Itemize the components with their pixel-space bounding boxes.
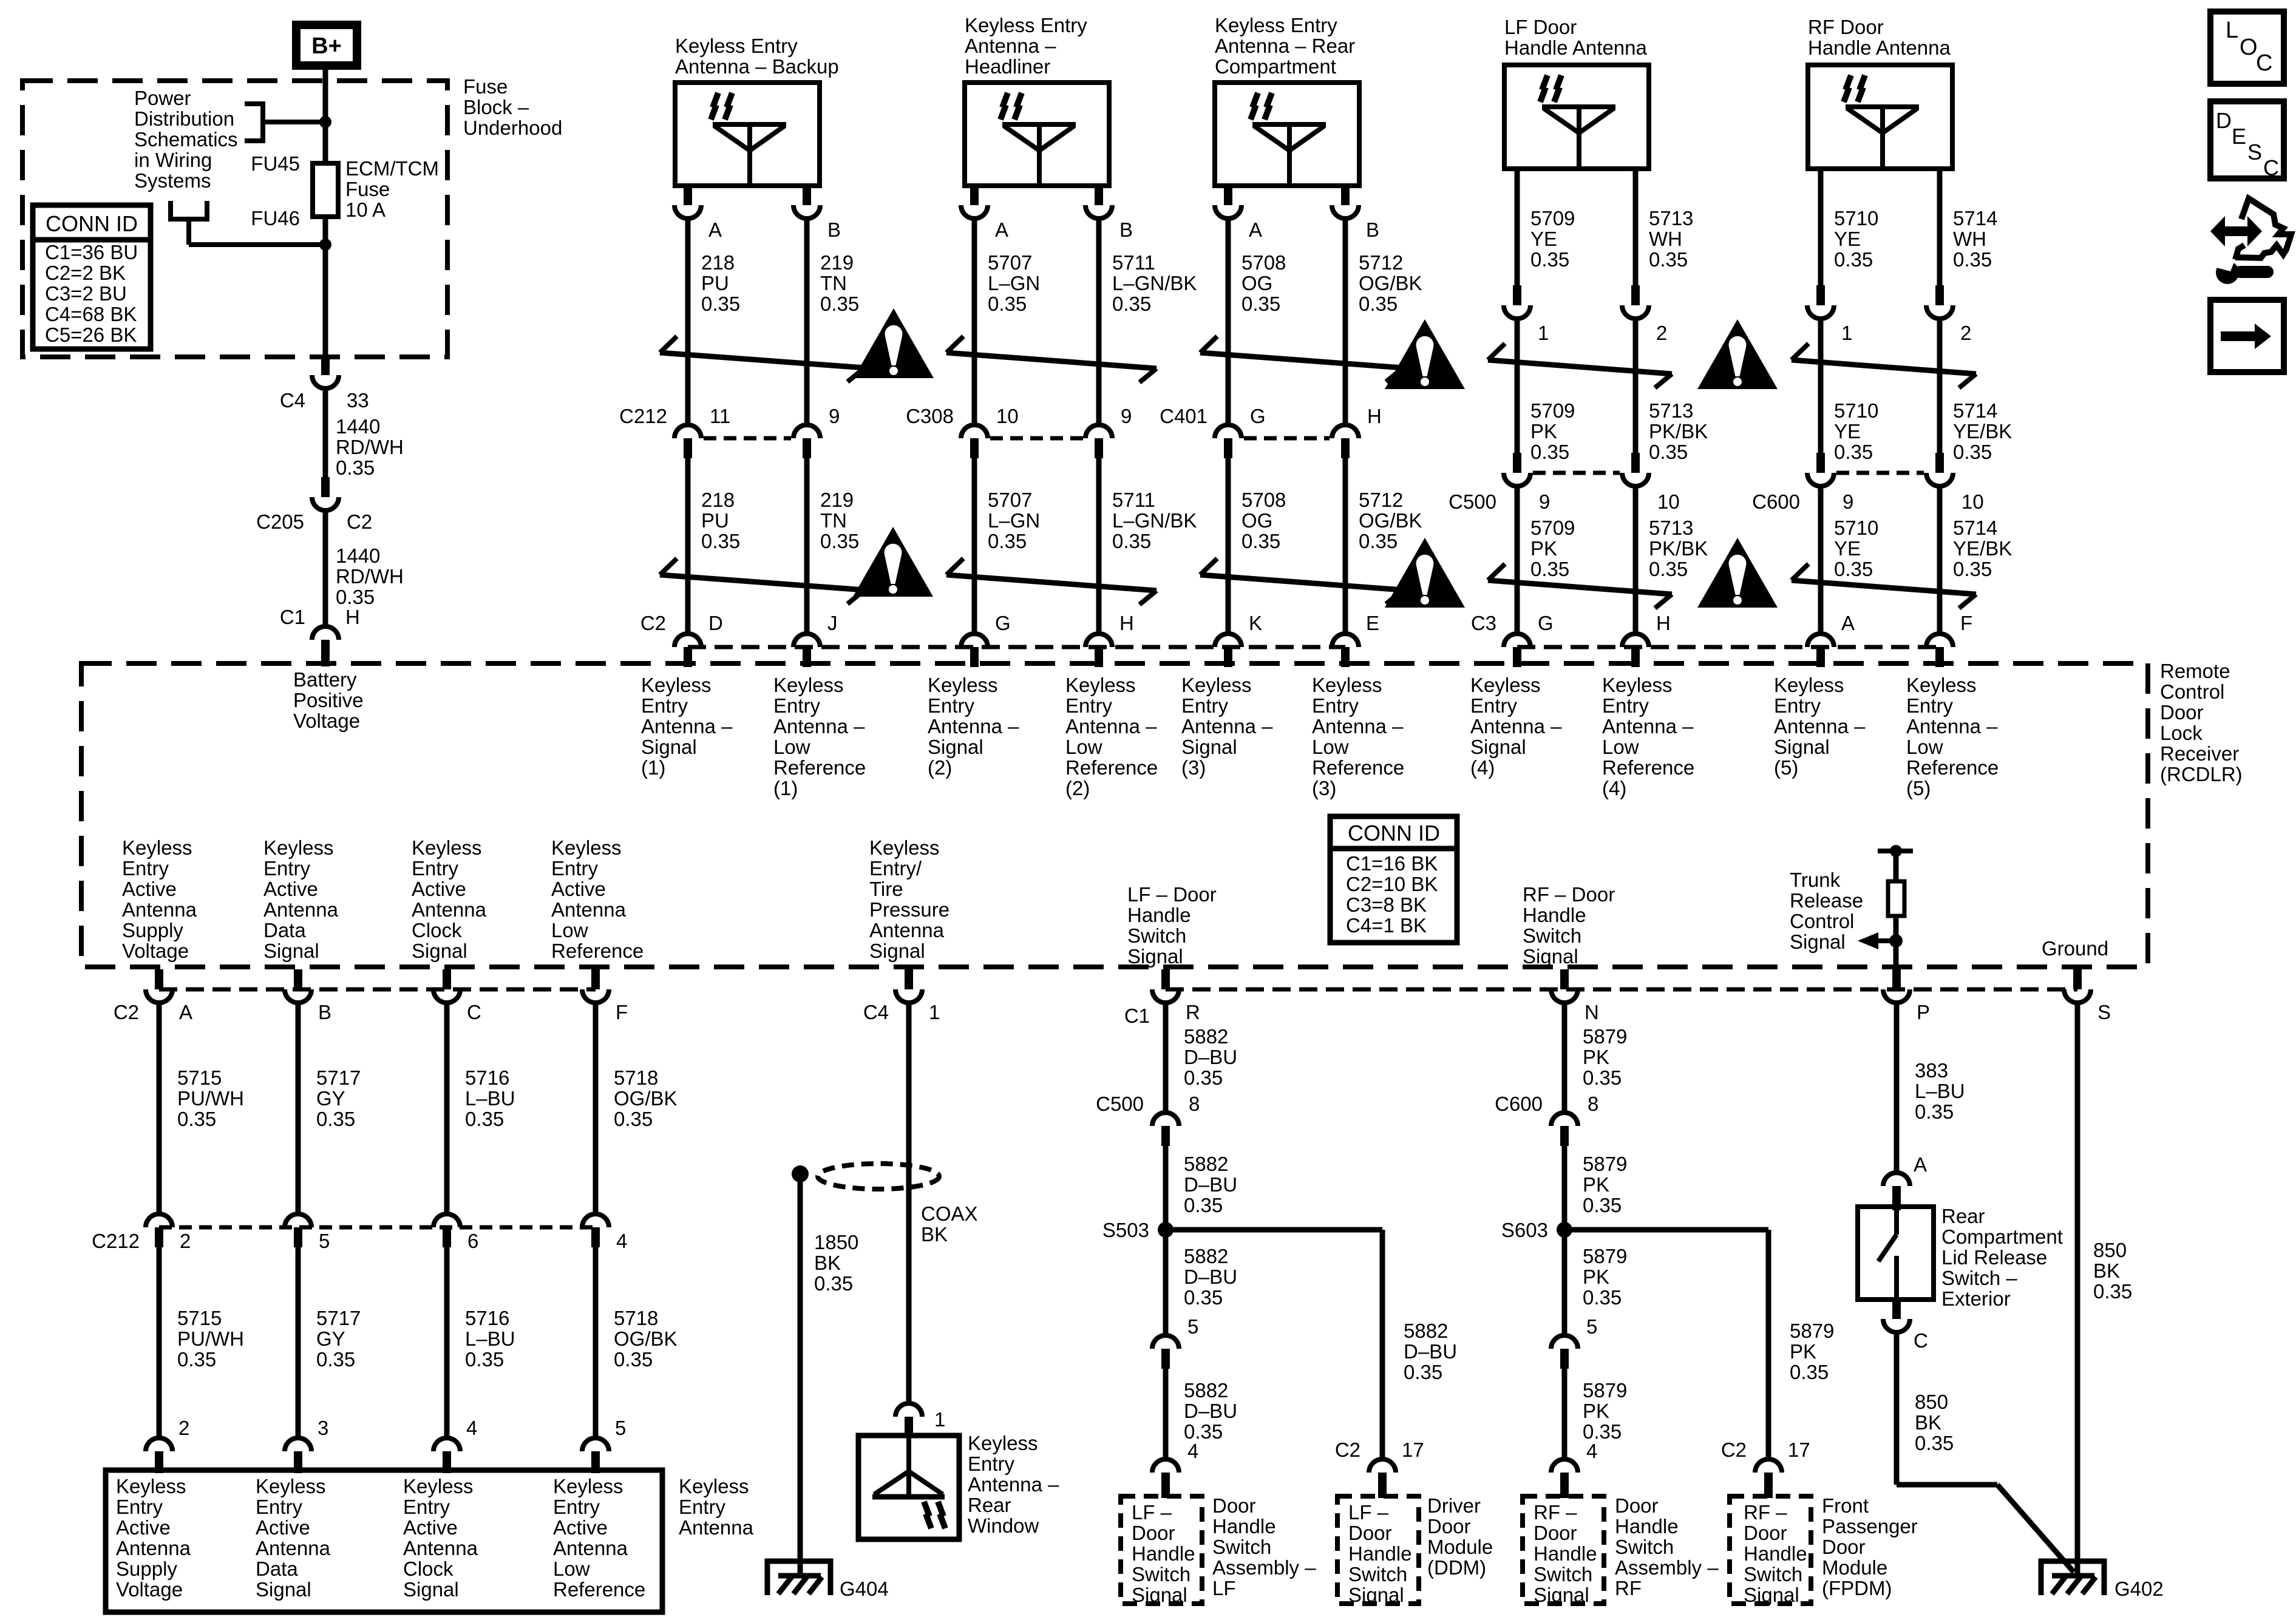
svg-text:Antenna: Antenna: [412, 898, 487, 921]
antenna box keyless entry antenna - rear compartment: [1215, 14, 1359, 186]
svg-text:Signal: Signal: [928, 736, 983, 758]
svg-text:G402: G402: [2114, 1578, 2164, 1600]
svg-text:Active: Active: [256, 1516, 310, 1539]
svg-text:5707: 5707: [988, 489, 1032, 511]
svg-text:Keyless Entry: Keyless Entry: [965, 14, 1087, 36]
svg-text:C2: C2: [1721, 1439, 1747, 1461]
svg-text:Entry: Entry: [928, 694, 975, 717]
svg-text:850: 850: [1915, 1391, 1948, 1413]
svg-text:H: H: [345, 606, 360, 628]
svg-text:Antenna: Antenna: [679, 1516, 754, 1539]
svg-text:11: 11: [710, 405, 730, 427]
label keyless entry antenna signal (2): [928, 674, 1019, 779]
svg-text:Receiver: Receiver: [2160, 742, 2239, 765]
svg-text:Handle Antenna: Handle Antenna: [1808, 36, 1951, 59]
svg-text:5713: 5713: [1649, 517, 1693, 539]
svg-text:0.35: 0.35: [1834, 248, 1873, 271]
svg-text:Signal: Signal: [1470, 736, 1526, 758]
svg-text:Keyless: Keyless: [116, 1475, 186, 1497]
svg-text:5879: 5879: [1583, 1245, 1627, 1267]
label inside module col 4: [553, 1475, 645, 1601]
svg-text:5: 5: [615, 1417, 626, 1439]
svg-text:Keyless: Keyless: [1470, 674, 1541, 696]
svg-text:ECM/TCM: ECM/TCM: [345, 157, 439, 180]
svg-text:0.35: 0.35: [336, 586, 375, 608]
svg-text:Signal: Signal: [1533, 1584, 1589, 1606]
svg-text:L–GN: L–GN: [988, 509, 1040, 532]
svg-text:J: J: [827, 612, 838, 634]
connector C2 pin 17 DDM: [1335, 1439, 1424, 1498]
svg-text:OG/BK: OG/BK: [1359, 509, 1422, 532]
crossing arrows lower: [1200, 558, 1403, 604]
svg-text:2: 2: [1656, 322, 1667, 344]
svg-text:Door: Door: [1615, 1494, 1659, 1517]
svg-text:(3): (3): [1181, 756, 1206, 779]
svg-text:Switch –: Switch –: [1941, 1267, 2017, 1289]
svg-text:(FPDM): (FPDM): [1822, 1577, 1892, 1599]
svg-text:Control: Control: [1790, 910, 1854, 932]
svg-text:Active: Active: [403, 1516, 458, 1539]
label keyless entry antenna low reference (4): [1602, 674, 1694, 799]
svg-text:Assembly –: Assembly –: [1615, 1556, 1719, 1579]
connector C2 dashed pin row at RCDLR bottom: [159, 988, 596, 992]
svg-text:0.35: 0.35: [1953, 441, 1992, 463]
label keyless entry antenna low reference (1): [773, 674, 866, 799]
svg-text:0.35: 0.35: [1790, 1361, 1829, 1383]
wire 5716 L–BU lower bottom-section: [447, 1247, 515, 1436]
svg-text:OG/BK: OG/BK: [1359, 272, 1422, 294]
svg-text:RF – Door: RF – Door: [1523, 883, 1615, 906]
label keyless entry antenna low reference (3): [1312, 674, 1404, 799]
svg-text:LF – Door: LF – Door: [1127, 883, 1217, 906]
svg-text:218: 218: [701, 251, 735, 274]
svg-text:Systems: Systems: [134, 169, 211, 192]
svg-text:Door: Door: [1744, 1522, 1787, 1544]
svg-text:Signal: Signal: [1348, 1584, 1404, 1606]
svg-text:0.35: 0.35: [316, 1348, 355, 1371]
svg-text:Entry: Entry: [551, 857, 599, 880]
svg-text:(1): (1): [773, 777, 798, 799]
label keyless entry antenna signal (5): [1774, 674, 1866, 779]
svg-text:0.35: 0.35: [2093, 1280, 2132, 1303]
svg-text:1: 1: [929, 1001, 940, 1023]
svg-text:CONN ID: CONN ID: [1348, 821, 1440, 846]
svg-text:Handle: Handle: [1744, 1542, 1807, 1565]
connector C600 pin 8: [1495, 1093, 1598, 1146]
svg-text:GY: GY: [316, 1327, 345, 1350]
connector pin E into RCDLR: [1332, 612, 1379, 667]
label keyless entry active antenna clock signal: [412, 836, 487, 962]
svg-text:S: S: [2247, 140, 2262, 164]
wire 5716 L–BU upper bottom-section: [447, 1002, 515, 1214]
svg-text:Keyless: Keyless: [551, 836, 622, 859]
svg-text:C: C: [1914, 1329, 1928, 1352]
svg-text:Antenna –: Antenna –: [928, 715, 1019, 737]
wire 850 BK from lid release switch: [1897, 1331, 2074, 1572]
wire 5709 YE from LF door antenna: [1517, 169, 1575, 285]
svg-text:Antenna –: Antenna –: [1181, 715, 1273, 737]
svg-text:OG: OG: [1241, 509, 1272, 532]
svg-text:0.35: 0.35: [1241, 530, 1280, 552]
svg-text:D–BU: D–BU: [1184, 1046, 1237, 1068]
svg-text:9: 9: [1539, 490, 1550, 513]
svg-text:Keyless: Keyless: [403, 1475, 474, 1497]
svg-text:Antenna –: Antenna –: [641, 715, 733, 737]
label inside module col 1: [116, 1475, 191, 1601]
svg-text:Signal: Signal: [412, 940, 467, 962]
battery feed B+ terminal: [296, 25, 357, 66]
svg-text:PK: PK: [1790, 1340, 1816, 1363]
svg-text:0.35: 0.35: [1915, 1432, 1954, 1454]
wire 5710 YE lower: [1821, 485, 1878, 634]
svg-text:YE: YE: [1834, 420, 1861, 442]
crossing arrows upper door: [1488, 344, 1672, 388]
svg-text:(4): (4): [1602, 777, 1626, 799]
svg-text:Compartment: Compartment: [1941, 1225, 2063, 1248]
svg-text:0.35: 0.35: [1953, 558, 1992, 580]
svg-text:Handle: Handle: [1615, 1515, 1679, 1537]
svg-text:4: 4: [1586, 1440, 1597, 1462]
svg-text:RF –: RF –: [1533, 1501, 1577, 1524]
svg-text:(4): (4): [1470, 756, 1495, 779]
bracket from schematics down: [168, 201, 209, 245]
svg-text:5712: 5712: [1359, 251, 1403, 274]
svg-text:PK: PK: [1530, 420, 1557, 442]
svg-text:Entry: Entry: [773, 694, 821, 717]
svg-text:5718: 5718: [614, 1066, 658, 1089]
svg-text:D–BU: D–BU: [1404, 1340, 1457, 1363]
label keyless entry antenna right of module: [679, 1475, 754, 1539]
svg-text:Signal: Signal: [1744, 1584, 1799, 1606]
svg-text:Keyless: Keyless: [122, 836, 192, 859]
svg-text:9: 9: [829, 405, 840, 427]
wire branch S603 to FPDM: [1564, 1230, 1834, 1459]
wire bracket to B+ node: [263, 120, 325, 124]
svg-text:TN: TN: [820, 509, 847, 532]
svg-text:C: C: [2256, 50, 2272, 76]
svg-text:(3): (3): [1312, 777, 1336, 799]
crossing arrows upper: [946, 336, 1156, 382]
svg-text:850: 850: [2093, 1239, 2127, 1261]
connector pin 4 LF door handle switch: [1152, 1440, 1198, 1498]
svg-text:5713: 5713: [1649, 207, 1693, 229]
svg-text:Clock: Clock: [412, 919, 462, 941]
connector pins A B under rear compartment antenna: [1215, 186, 1379, 241]
svg-text:A: A: [1841, 612, 1855, 634]
svg-text:B: B: [827, 219, 841, 241]
svg-text:Reference: Reference: [1312, 756, 1404, 779]
label keyless entry active antenna supply voltage: [122, 836, 197, 962]
label keyless entry active antenna data signal: [263, 836, 339, 962]
svg-text:Antenna –: Antenna –: [1470, 715, 1562, 737]
wire 218 PU lower: [688, 458, 740, 634]
svg-text:1440: 1440: [336, 415, 380, 438]
svg-text:LF: LF: [1212, 1577, 1236, 1599]
svg-text:C308: C308: [906, 405, 954, 427]
connector pin F at RCDLR bottom: [582, 969, 628, 1023]
svg-text:Entry: Entry: [1312, 694, 1359, 717]
svg-text:D: D: [708, 612, 723, 634]
svg-text:4: 4: [616, 1230, 627, 1252]
label keyless entry antenna signal (1): [641, 674, 733, 779]
connector pin 5 door handle switch assembly LF: [1152, 1315, 1198, 1369]
connector C2 dashed pin row at RCDLR top: [688, 645, 1345, 649]
svg-text:0.35: 0.35: [1834, 441, 1873, 463]
svg-text:PU/WH: PU/WH: [177, 1327, 244, 1350]
svg-text:Antenna –: Antenna –: [1602, 715, 1694, 737]
svg-text:YE/BK: YE/BK: [1953, 420, 2012, 442]
svg-text:Keyless: Keyless: [263, 836, 334, 859]
svg-text:5713: 5713: [1649, 399, 1693, 422]
RF door handle switch signal dashed box FPDM: [1730, 1496, 1811, 1606]
svg-text:Antenna: Antenna: [122, 898, 197, 921]
connector C212 pin 4 bottom section: [582, 1214, 627, 1252]
wire 219 TN lower: [807, 458, 859, 634]
wire 5713 PK/BK mid: [1635, 317, 1708, 463]
svg-text:O: O: [2240, 35, 2258, 60]
svg-text:Window: Window: [968, 1514, 1039, 1537]
svg-text:Driver: Driver: [1427, 1494, 1481, 1517]
svg-text:S: S: [2097, 1001, 2111, 1023]
svg-text:10: 10: [996, 405, 1019, 427]
svg-text:0.35: 0.35: [1184, 1194, 1223, 1216]
svg-text:in Wiring: in Wiring: [134, 149, 212, 171]
svg-text:C600: C600: [1752, 490, 1800, 513]
svg-text:17: 17: [1788, 1439, 1810, 1461]
diagnostic icon double arrow with component and wrench: [2210, 198, 2291, 284]
svg-text:COAX: COAX: [921, 1202, 978, 1225]
ground G404: [765, 1559, 889, 1600]
svg-text:0.35: 0.35: [1649, 441, 1688, 463]
svg-text:WH: WH: [1649, 228, 1682, 250]
svg-text:C4: C4: [863, 1001, 889, 1023]
svg-text:5882: 5882: [1184, 1025, 1228, 1048]
svg-text:(5): (5): [1906, 777, 1931, 799]
svg-text:0.35: 0.35: [820, 530, 859, 552]
svg-text:C2: C2: [114, 1001, 139, 1023]
connector pin N at RCDLR bottom: [1551, 969, 1599, 1023]
svg-text:Signal: Signal: [1790, 931, 1846, 953]
svg-text:PK: PK: [1530, 537, 1557, 560]
svg-text:Keyless Entry: Keyless Entry: [675, 35, 798, 57]
svg-text:3: 3: [318, 1417, 328, 1439]
label keyless entry active antenna low reference: [551, 836, 644, 962]
svg-text:RD/WH: RD/WH: [336, 565, 404, 588]
svg-text:4: 4: [466, 1417, 477, 1439]
svg-text:YE/BK: YE/BK: [1953, 537, 2012, 560]
svg-text:0.35: 0.35: [701, 530, 740, 552]
svg-text:0.35: 0.35: [177, 1108, 216, 1130]
svg-text:C3=8 BK: C3=8 BK: [1346, 893, 1427, 916]
node junction below fuse: [319, 239, 331, 251]
svg-text:5879: 5879: [1790, 1320, 1834, 1342]
svg-text:S503: S503: [1102, 1219, 1149, 1241]
svg-text:6: 6: [467, 1230, 478, 1252]
svg-text:5714: 5714: [1953, 517, 1997, 539]
wire 1850 BK to ground G404: [800, 1180, 858, 1576]
svg-text:5710: 5710: [1834, 517, 1878, 539]
svg-text:5711: 5711: [1112, 489, 1155, 511]
svg-text:Door: Door: [1427, 1515, 1471, 1537]
svg-text:0.35: 0.35: [336, 456, 375, 479]
connector pins A B under backup antenna: [674, 186, 841, 241]
svg-text:Entry: Entry: [403, 1496, 450, 1518]
svg-text:5882: 5882: [1184, 1245, 1228, 1267]
svg-text:LF Door: LF Door: [1504, 16, 1577, 38]
svg-text:5709: 5709: [1530, 207, 1575, 229]
svg-text:(5): (5): [1774, 756, 1798, 779]
wire 5708 OG lower: [1228, 458, 1286, 634]
svg-text:Antenna – Backup: Antenna – Backup: [675, 55, 839, 78]
connector pin C rear compartment lid release switch: [1883, 1300, 1928, 1352]
svg-text:Entry: Entry: [116, 1496, 163, 1518]
svg-text:F: F: [1960, 612, 1972, 634]
svg-text:Rear: Rear: [968, 1494, 1011, 1516]
svg-text:0.35: 0.35: [1404, 1361, 1442, 1383]
svg-text:Handle: Handle: [1523, 904, 1586, 926]
svg-text:Signal: Signal: [256, 1578, 311, 1601]
svg-text:Fuse: Fuse: [345, 178, 390, 200]
wire 5711 L–GN/BK lower: [1099, 458, 1197, 634]
svg-text:E: E: [2232, 124, 2246, 149]
svg-text:D–BU: D–BU: [1184, 1400, 1237, 1422]
antenna box RF door handle antenna: [1808, 16, 1952, 169]
svg-text:Passenger: Passenger: [1822, 1515, 1918, 1537]
connector pin A rear compartment lid release switch: [1883, 1153, 1927, 1210]
connector pins A B under headliner antenna: [961, 186, 1133, 241]
svg-text:383: 383: [1915, 1059, 1948, 1082]
wire 5718 OG/BK lower bottom-section: [596, 1247, 678, 1436]
wire 218 PU upper: [688, 216, 740, 425]
connector pin P at RCDLR bottom: [1883, 969, 1930, 1023]
svg-text:5879: 5879: [1583, 1025, 1627, 1048]
svg-text:A: A: [1914, 1153, 1927, 1176]
svg-text:5709: 5709: [1530, 399, 1575, 422]
svg-text:L: L: [2226, 18, 2238, 43]
connector pin 3 into keyless entry antenna module: [285, 1417, 328, 1473]
svg-text:RF Door: RF Door: [1808, 16, 1884, 38]
svg-text:5: 5: [319, 1230, 330, 1252]
svg-text:Headliner: Headliner: [965, 55, 1050, 78]
fuse FU45/FU46 ECM/TCM 10 A: [251, 152, 439, 229]
connector C1 pin H into RCDLR: [280, 606, 360, 666]
svg-text:Keyless: Keyless: [553, 1475, 623, 1497]
svg-text:A: A: [995, 219, 1008, 241]
rear compartment lid release switch - exterior: [1858, 1205, 2063, 1310]
svg-text:0.35: 0.35: [1112, 530, 1151, 552]
connector label C4 at RCDLR bottom: [863, 1001, 889, 1023]
svg-text:LF –: LF –: [1348, 1501, 1389, 1524]
svg-text:Voltage: Voltage: [116, 1578, 183, 1601]
svg-text:2: 2: [1960, 322, 1971, 344]
svg-text:PU: PU: [701, 272, 729, 294]
svg-text:Entry: Entry: [256, 1496, 303, 1518]
svg-text:Battery: Battery: [293, 668, 357, 691]
connector C212 pins 11 9: [619, 405, 840, 458]
svg-text:Door: Door: [2160, 701, 2204, 724]
svg-text:Keyless: Keyless: [1774, 674, 1844, 696]
svg-text:A: A: [179, 1001, 192, 1023]
svg-text:Clock: Clock: [403, 1558, 453, 1580]
svg-text:Keyless Entry: Keyless Entry: [1215, 14, 1337, 36]
svg-text:C2: C2: [1335, 1439, 1360, 1461]
svg-text:0.35: 0.35: [465, 1108, 504, 1130]
connector pin F into RCDLR: [1926, 612, 1972, 667]
svg-text:Switch: Switch: [1744, 1563, 1802, 1585]
svg-text:0.35: 0.35: [1530, 441, 1569, 463]
svg-text:(2): (2): [928, 756, 952, 779]
connector pin 4 RF door handle switch: [1551, 1440, 1597, 1498]
svg-text:BK: BK: [921, 1223, 948, 1246]
warning triangle row2 col1: [853, 527, 933, 597]
svg-text:TN: TN: [820, 272, 847, 294]
svg-text:Door: Door: [1348, 1522, 1392, 1544]
svg-text:H: H: [1367, 405, 1382, 427]
svg-text:Door: Door: [1132, 1522, 1175, 1544]
svg-text:L–BU: L–BU: [465, 1087, 515, 1110]
svg-text:Antenna –: Antenna –: [1906, 715, 1998, 737]
svg-text:0.35: 0.35: [614, 1348, 653, 1371]
svg-text:9: 9: [1121, 405, 1132, 427]
svg-text:Data: Data: [263, 919, 306, 941]
svg-text:C: C: [2263, 155, 2279, 180]
svg-text:PU/WH: PU/WH: [177, 1087, 244, 1110]
svg-text:C4=1 BK: C4=1 BK: [1346, 914, 1427, 937]
connector C212 pin 5 bottom section: [285, 1214, 330, 1252]
svg-text:(DDM): (DDM): [1427, 1556, 1486, 1579]
svg-text:Data: Data: [256, 1558, 298, 1580]
antenna box LF door handle antenna: [1504, 16, 1649, 169]
svg-text:OG: OG: [1241, 272, 1272, 294]
svg-text:YE: YE: [1834, 228, 1861, 250]
svg-text:Signal: Signal: [1774, 736, 1830, 758]
svg-text:C2: C2: [347, 510, 372, 533]
svg-text:0.35: 0.35: [614, 1108, 653, 1130]
svg-text:5708: 5708: [1241, 251, 1286, 274]
svg-text:Antenna: Antenna: [551, 898, 627, 921]
svg-text:Entry: Entry: [1181, 694, 1229, 717]
svg-text:8: 8: [1588, 1093, 1598, 1115]
svg-text:5: 5: [1586, 1315, 1597, 1338]
svg-text:OG/BK: OG/BK: [614, 1327, 678, 1350]
svg-text:Entry: Entry: [968, 1453, 1015, 1475]
crossing arrows lower door: [1792, 564, 1976, 608]
wire 5711 L–GN/BK upper: [1099, 216, 1197, 425]
svg-text:Antenna: Antenna: [256, 1537, 331, 1559]
label keyless entry antenna low reference (5): [1906, 674, 1999, 799]
svg-text:L–BU: L–BU: [1915, 1080, 1965, 1102]
svg-text:Signal: Signal: [641, 736, 697, 758]
label driver door module DDM: [1427, 1494, 1493, 1579]
svg-text:C2=2 BK: C2=2 BK: [45, 262, 126, 284]
svg-text:5714: 5714: [1953, 399, 1997, 422]
svg-text:YE: YE: [1530, 228, 1557, 250]
svg-text:C2: C2: [640, 612, 666, 634]
svg-text:Switch: Switch: [1523, 924, 1581, 947]
crossing arrows lower: [946, 558, 1156, 605]
svg-text:5: 5: [1187, 1315, 1198, 1338]
svg-text:Handle: Handle: [1132, 1542, 1195, 1565]
svg-text:Handle: Handle: [1212, 1515, 1276, 1537]
svg-text:0.35: 0.35: [988, 530, 1027, 552]
svg-text:0.35: 0.35: [814, 1272, 853, 1295]
crossing arrows lower: [660, 558, 864, 604]
svg-text:Switch: Switch: [1615, 1536, 1674, 1558]
wire 383 L-BU: [1897, 1002, 1965, 1173]
svg-text:Keyless: Keyless: [1065, 674, 1136, 696]
svg-text:8: 8: [1189, 1093, 1200, 1115]
wire 5707 L–GN upper: [974, 216, 1040, 425]
